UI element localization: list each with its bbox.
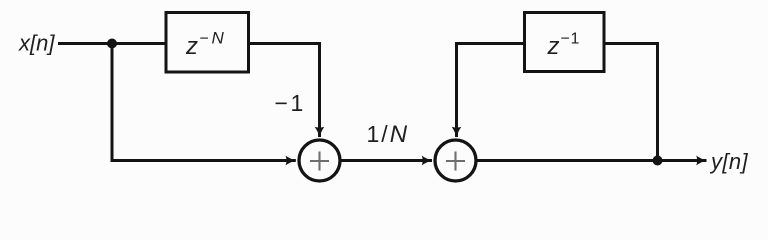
wire: adder S1 to adder S2 <box>342 159 433 162</box>
wire: branch down from input node <box>112 44 296 161</box>
node: output branch junction <box>653 156 663 166</box>
svg-text:−: − <box>561 31 570 48</box>
svg-text:z: z <box>547 33 560 60</box>
wire: feedback up from output node to z^-1 <box>604 44 658 161</box>
svg-text:1: 1 <box>571 31 580 48</box>
svg-text:x[n]: x[n] <box>18 31 55 56</box>
delay box U1 z^-N <box>166 13 249 73</box>
wire: z^-1 output down into adder S2 <box>457 44 525 138</box>
svg-text:y[n]: y[n] <box>709 149 749 174</box>
wire: adder S2 output to y[n] <box>478 159 707 162</box>
adder S2 <box>435 140 476 181</box>
wire: x[n] to delay box z^-N <box>58 42 166 45</box>
svg-text:N: N <box>212 29 225 48</box>
adder S1 <box>299 140 340 181</box>
svg-text:z: z <box>185 33 198 60</box>
plus sign S2 <box>446 152 465 171</box>
svg-text:1/N: 1/N <box>367 121 408 148</box>
delay box U2 z^-1 <box>525 13 605 72</box>
node: input branch junction <box>107 39 117 49</box>
plus sign S1 <box>310 152 329 171</box>
wire: z^-N output down into adder S1 <box>247 44 320 138</box>
svg-text:−: − <box>200 31 209 48</box>
